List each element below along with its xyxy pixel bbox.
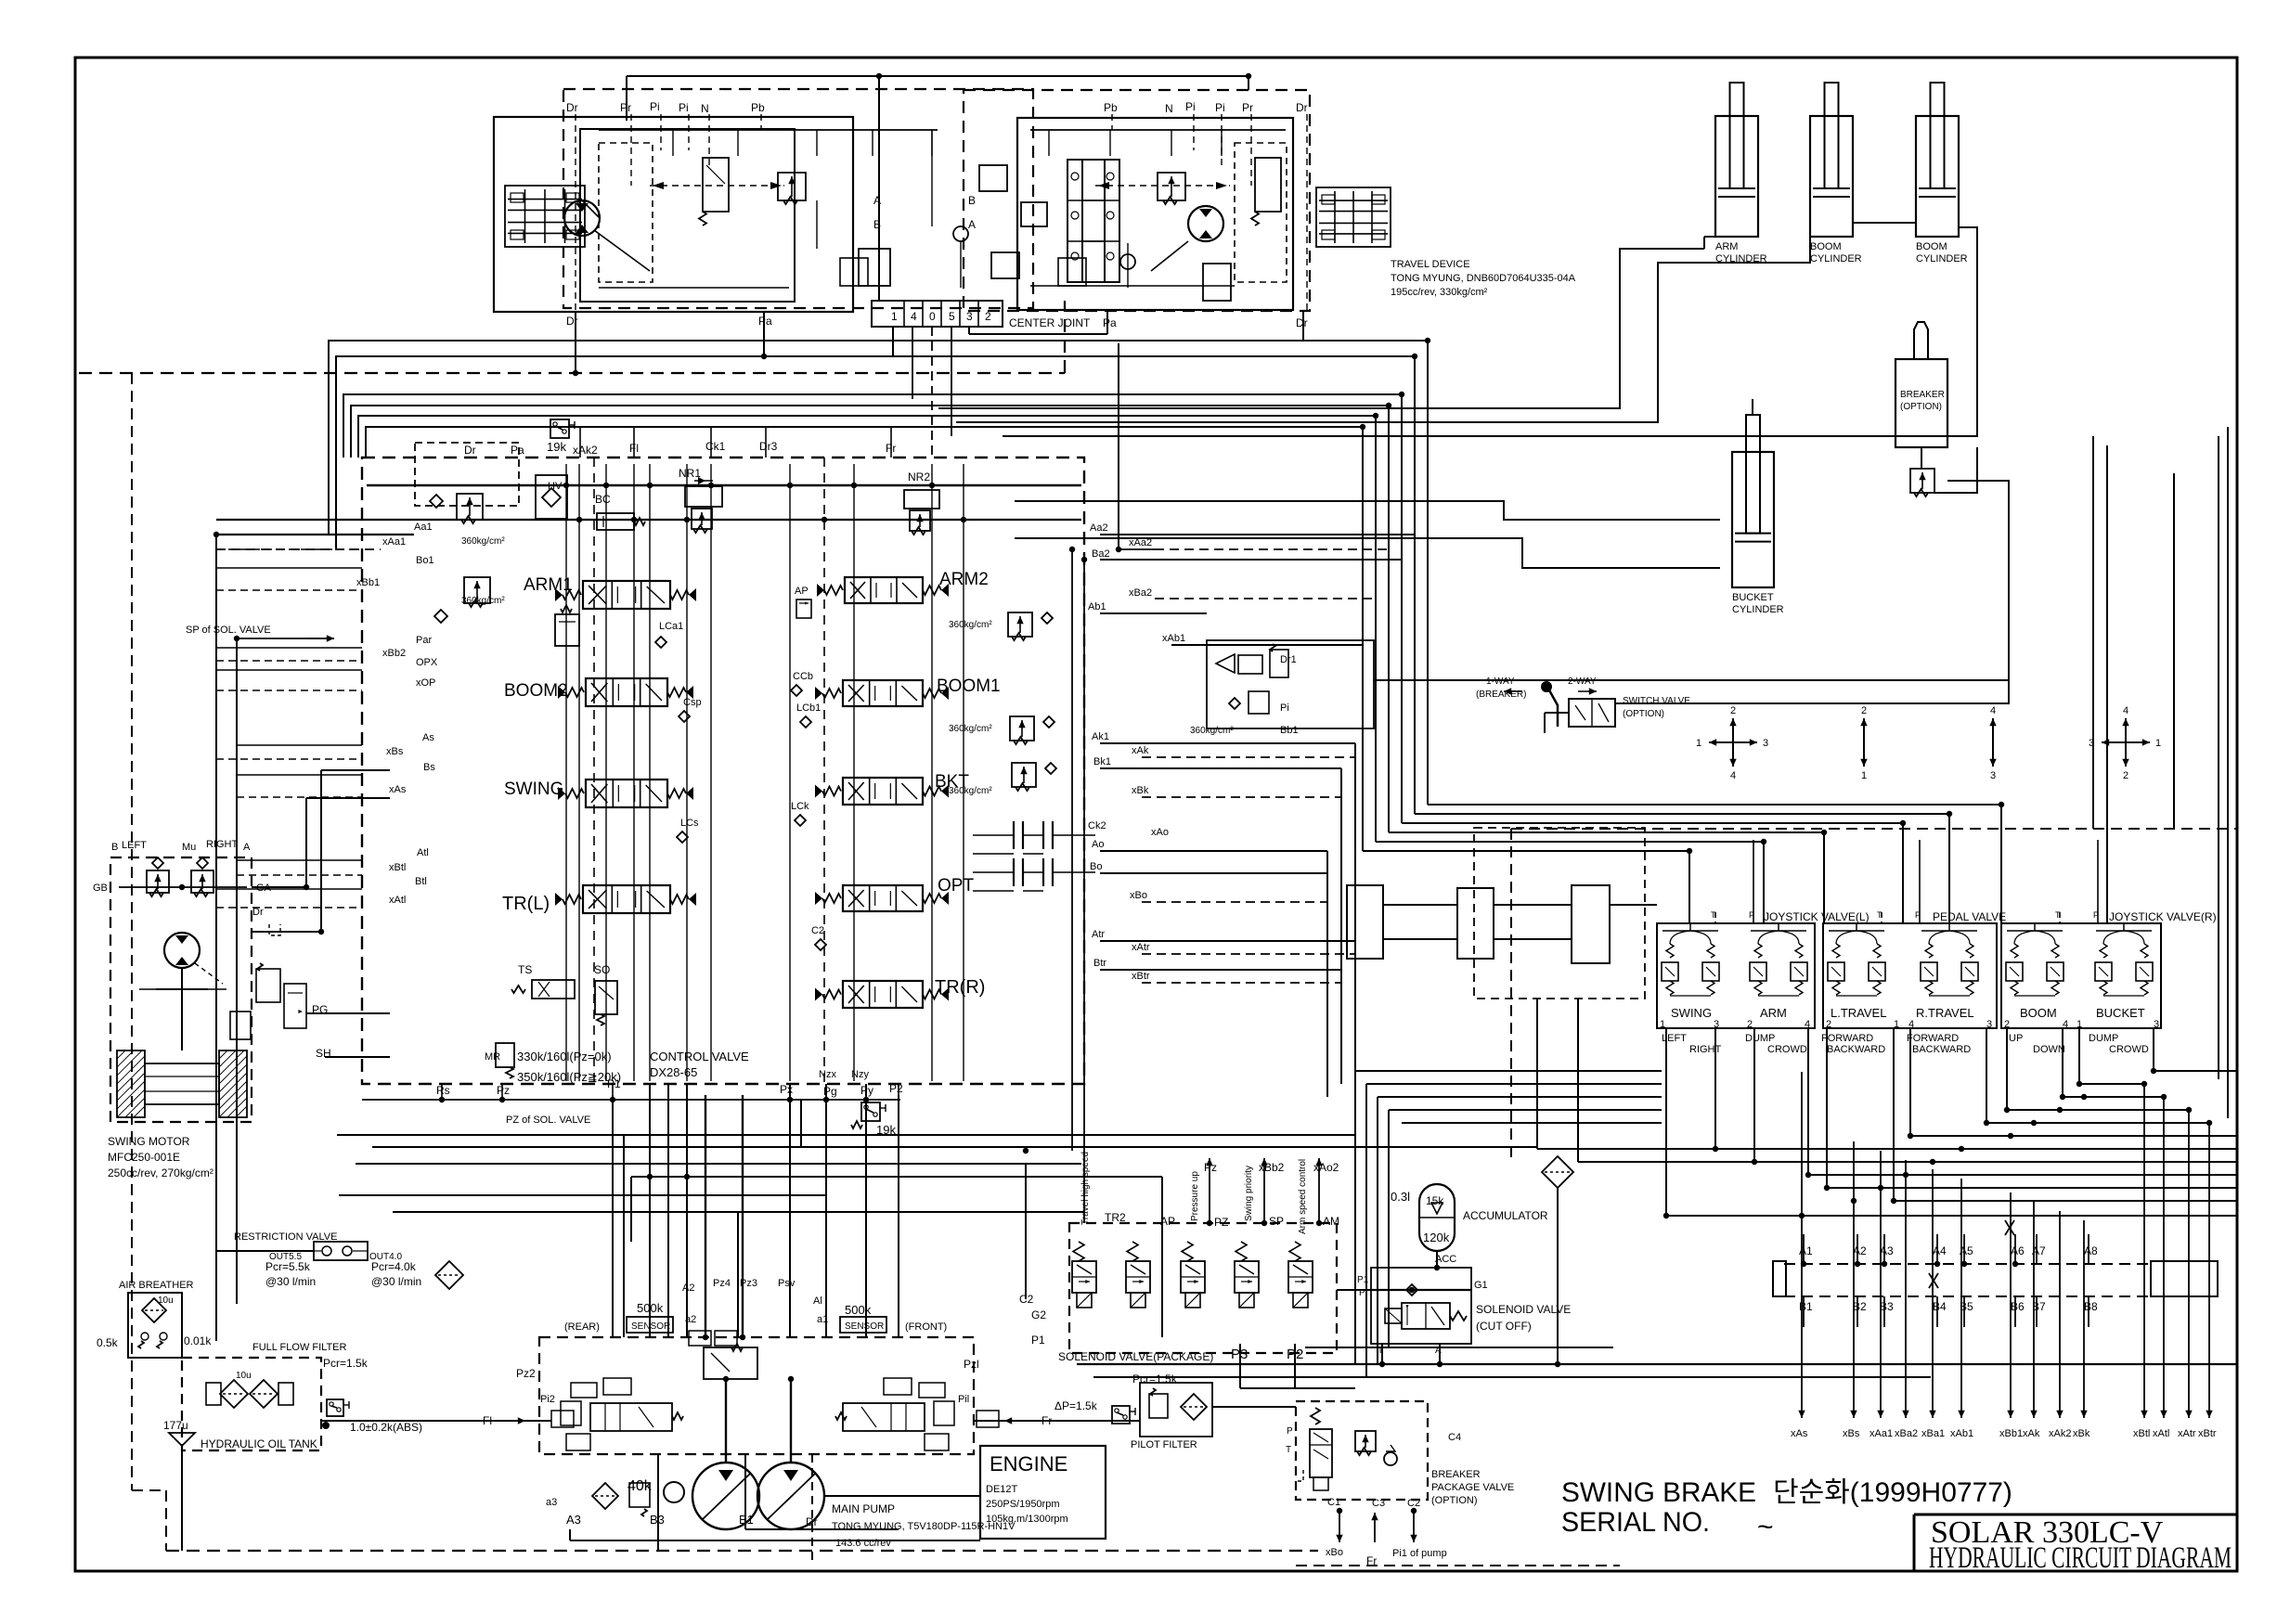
wire collector row 9 [1808, 1174, 2237, 1176]
arm cylinder [1715, 116, 1758, 237]
breaker relief valve [1910, 469, 1934, 493]
svg-text:GB: GB [93, 883, 108, 894]
breaker package main valve [1310, 1429, 1332, 1477]
valve ARM1 [583, 581, 670, 609]
svg-text:SP of SOL. VALVE: SP of SOL. VALVE [186, 625, 271, 636]
main pump dashed box [539, 1337, 974, 1454]
svg-text:UP: UP [2009, 1033, 2023, 1044]
wire mid horizontals right of CV [1100, 534, 1119, 535]
joystick R box [2001, 923, 2161, 1028]
svg-text:JOYSTICK VALVE(R): JOYSTICK VALVE(R) [2109, 910, 2217, 923]
svg-text:Ao: Ao [1092, 839, 1104, 850]
svg-text:LCa1: LCa1 [659, 621, 683, 632]
svg-text:xBk: xBk [2073, 1428, 2090, 1439]
svg-text:Bk1: Bk1 [1093, 756, 1111, 767]
wire P3 P2 drops [1239, 1344, 1241, 1388]
wire swing to CV [252, 886, 306, 888]
wire collector row 2 [2079, 1083, 2144, 1085]
svg-text:TRAVEL DEVICE: TRAVEL DEVICE [1391, 259, 1470, 270]
svg-text:MFC250-001E: MFC250-001E [108, 1151, 180, 1164]
wire xAa1 dashed row [216, 548, 381, 550]
svg-text:Swing priority: Swing priority [1244, 1166, 1254, 1221]
wire CV up-bus 3 [343, 394, 1402, 823]
relief Bk1 360kg [1012, 763, 1036, 787]
svg-text:Pzl: Pzl [964, 1358, 979, 1371]
svg-text:SERIAL NO.: SERIAL NO. [1561, 1507, 1710, 1538]
wire dashed supply top [1511, 828, 2237, 830]
svg-text:Dr: Dr [1296, 316, 1308, 329]
wire joystick drop 11 [2078, 1028, 2080, 1084]
direction cross 1 [1709, 741, 1733, 743]
wire xAa2 drop [1118, 343, 1119, 549]
svg-text:xAo2: xAo2 [1313, 1161, 1339, 1174]
wire joystick drop 4 [1807, 1028, 1809, 1175]
svg-text:xBtl: xBtl [2133, 1428, 2150, 1439]
svg-text:Dr1: Dr1 [1280, 654, 1297, 665]
svg-text:Pr: Pr [1242, 101, 1253, 114]
main relief Aa1 360kg [415, 443, 519, 506]
AB terminal strip [1784, 1263, 2151, 1265]
svg-text:B: B [111, 842, 118, 853]
svg-text:B6: B6 [2011, 1300, 2025, 1313]
svg-text:DE12T: DE12T [986, 1484, 1018, 1495]
svg-text:xAtl: xAtl [389, 895, 406, 906]
return filter diamond [435, 1261, 463, 1289]
svg-text:Pcr=1.5k: Pcr=1.5k [323, 1357, 369, 1370]
wire collector row 3 [2063, 1096, 2164, 1098]
svg-text:0.5k: 0.5k [97, 1336, 119, 1349]
wire left bus vertical 2 [236, 638, 238, 1304]
svg-text:1: 1 [1696, 738, 1701, 749]
svg-text:2: 2 [1730, 705, 1736, 716]
svg-text:Bo1: Bo1 [416, 555, 434, 566]
relief left travel 3 [991, 252, 1019, 278]
svg-text:G1: G1 [1474, 1280, 1488, 1291]
pilot line xAtr [2188, 1110, 2190, 1418]
pilot block right [1572, 885, 1610, 963]
svg-text:CONTROL VALVE: CONTROL VALVE [650, 1050, 749, 1063]
svg-text:P1: P1 [607, 1077, 621, 1090]
svg-text:BOOM: BOOM [2020, 1006, 2057, 1020]
servo piston center [689, 1331, 711, 1346]
svg-text:@30 l/min: @30 l/min [371, 1275, 421, 1288]
wire Fr line [974, 1420, 1004, 1422]
wire tank down to bottom [181, 1446, 183, 1551]
wire center joint drops [931, 327, 933, 458]
wire diamond drop [1557, 1188, 1559, 1364]
wire boom cylinder2 down [1003, 227, 1977, 436]
wire CV top risers [579, 427, 581, 458]
svg-text:DUMP: DUMP [1745, 1033, 1775, 1044]
svg-text:DX28-65: DX28-65 [650, 1065, 697, 1079]
svg-text:2-WAY: 2-WAY [1568, 677, 1597, 687]
wire SP of SOL VALVE line [237, 638, 334, 639]
svg-text:Btr: Btr [1093, 958, 1106, 969]
pilot line xBa1 [1932, 1169, 1934, 1418]
swing relief pair [147, 870, 169, 893]
wire joystick drop 8 [1986, 1028, 1987, 1123]
svg-text:SENSOR: SENSOR [631, 1321, 670, 1332]
svg-text:Pz: Pz [497, 1084, 510, 1097]
valve ARM2 [845, 577, 923, 603]
svg-text:T: T [1286, 1445, 1291, 1455]
junction dots [573, 370, 578, 376]
wire collector row 8 [1578, 1161, 2237, 1163]
wire pump to pilot filter [974, 1420, 1140, 1422]
engine shaft [824, 1495, 980, 1497]
svg-text:A2: A2 [1853, 1244, 1867, 1257]
wire joystick drop 2 [1714, 1028, 1716, 1149]
pilot line xAa1 [1880, 1151, 1882, 1418]
svg-text:Pa: Pa [1103, 316, 1117, 329]
svg-text:B: B [968, 194, 976, 207]
svg-text:BUCKET: BUCKET [2096, 1006, 2145, 1020]
svg-text:R.TRAVEL: R.TRAVEL [1916, 1006, 1974, 1020]
wire CV Aa1 long bus [216, 519, 1081, 521]
joystick R BUCKET unit [2100, 944, 2107, 958]
strip X marks [1929, 1273, 1938, 1288]
svg-text:As: As [422, 732, 434, 743]
svg-text:A: A [243, 842, 251, 853]
svg-text:xAk: xAk [1132, 745, 1149, 756]
wire travel left Pa down [763, 312, 765, 356]
svg-text:1: 1 [1861, 770, 1867, 781]
breaker package valve dashed box [1296, 1401, 1428, 1500]
svg-text:Csp: Csp [683, 697, 702, 708]
svg-text:A6: A6 [2011, 1244, 2025, 1257]
control valve inner dashed divider right [823, 458, 825, 1084]
pump regulator right [919, 1383, 945, 1398]
breaker package arrows [1339, 1511, 1340, 1542]
svg-text:A4: A4 [1933, 1244, 1947, 1257]
cut off solenoid valve symbol [1402, 1303, 1450, 1329]
svg-text:xAk: xAk [2023, 1428, 2040, 1439]
wire bucket cylinder lines [1015, 501, 1720, 520]
svg-text:xOP: xOP [416, 677, 435, 689]
wire collector drop verticals [1354, 1071, 1356, 1364]
svg-text:BC: BC [595, 493, 611, 506]
svg-text:Bo: Bo [1090, 861, 1102, 872]
relief right travel 1 [1158, 173, 1185, 200]
svg-text:Rs: Rs [436, 1084, 450, 1097]
svg-text:C4: C4 [1448, 1432, 1461, 1443]
swing brake hatch [117, 1050, 145, 1117]
svg-text:DUMP: DUMP [2089, 1033, 2118, 1044]
svg-text:C2: C2 [1407, 1498, 1420, 1509]
svg-text:1-WAY: 1-WAY [1486, 677, 1515, 687]
svg-text:~: ~ [1757, 1512, 1774, 1542]
svg-text:B3: B3 [650, 1513, 665, 1527]
pilot line xAs [1801, 1072, 1803, 1418]
svg-text:CENTER JOINT: CENTER JOINT [1009, 316, 1091, 329]
svg-text:2: 2 [985, 310, 991, 323]
svg-text:ENGINE: ENGINE [990, 1452, 1067, 1476]
wire mid collector rows [337, 1134, 1355, 1136]
svg-text:N: N [1165, 102, 1173, 115]
wire joystick drop 6 [1893, 1028, 1895, 1201]
svg-text:SWING: SWING [504, 780, 563, 799]
pilot block left [1457, 888, 1494, 959]
wire B strip drops [1803, 1296, 1805, 1327]
joystick L SWING unit [1666, 944, 1674, 958]
wire pilot block links [1383, 904, 1457, 906]
svg-text:MR: MR [485, 1051, 500, 1063]
wire right edge verticals [2227, 427, 2229, 1118]
svg-text:xBs: xBs [1843, 1428, 1860, 1439]
svg-text:CCb: CCb [793, 671, 813, 682]
svg-text:LCb1: LCb1 [796, 702, 821, 714]
swing motor shaft [181, 968, 183, 1050]
svg-text:Ak1: Ak1 [1092, 731, 1109, 742]
svg-text:Ck1: Ck1 [705, 440, 726, 453]
svg-text:1: 1 [2155, 738, 2161, 749]
svg-text:P2: P2 [889, 1082, 903, 1095]
svg-text:Pi: Pi [650, 100, 660, 113]
svg-text:360kg/cm²: 360kg/cm² [1190, 726, 1234, 736]
wire CV internal verticals [565, 464, 567, 1081]
counterbalance valve right [1255, 158, 1281, 212]
svg-text:RIGHT: RIGHT [206, 839, 239, 850]
svg-text:a3: a3 [546, 1497, 557, 1508]
wire left travel inner details [599, 143, 653, 282]
svg-text:ARM1: ARM1 [524, 575, 573, 595]
relief Bo1 360kg [464, 577, 490, 603]
svg-text:Aa1: Aa1 [414, 522, 433, 533]
svg-text:A8: A8 [2084, 1244, 2098, 1257]
main pump circle right [757, 1463, 824, 1529]
svg-text:BACKWARD: BACKWARD [1827, 1044, 1885, 1055]
svg-text:5: 5 [949, 310, 955, 323]
svg-text:Pi2: Pi2 [540, 1394, 555, 1405]
travel spool valve right [1082, 160, 1119, 282]
hydraulic oil tank dashed box [182, 1358, 321, 1450]
boom cylinder 1 [1810, 116, 1853, 237]
gearbox right [1316, 187, 1391, 247]
svg-text:Mu: Mu [182, 842, 196, 853]
wire Fl line [525, 1420, 551, 1422]
wire collector row 7 [1537, 1148, 2237, 1150]
wire CV left port stubs [216, 534, 362, 535]
joystick R BOOM unit [2011, 944, 2018, 958]
svg-text:NR2: NR2 [908, 470, 930, 483]
svg-text:xAtl: xAtl [2153, 1428, 2169, 1439]
wire Aa1 row [216, 534, 414, 535]
wire bottom long dashed [166, 1550, 1318, 1552]
svg-text:CROWD: CROWD [2109, 1044, 2149, 1055]
valve BOOM1 [843, 680, 923, 706]
svg-text:SWING: SWING [1671, 1006, 1712, 1020]
wire joystick drop 10 [2062, 1028, 2064, 1097]
wire collector row 11 [1894, 1200, 2237, 1202]
svg-text:Ba2: Ba2 [1092, 548, 1110, 560]
svg-text:3: 3 [1990, 770, 1996, 781]
travel device left outer box [494, 117, 853, 312]
svg-text:DOWN: DOWN [2033, 1044, 2065, 1055]
svg-text:1: 1 [1660, 1019, 1665, 1030]
svg-text:195cc/rev, 330kg/cm²: 195cc/rev, 330kg/cm² [1391, 287, 1488, 298]
wire CV up-bus 4 [351, 406, 1389, 832]
svg-text:xBtl: xBtl [389, 862, 406, 873]
control valve inner dashed divider left [593, 458, 595, 1084]
svg-text:Pz4: Pz4 [713, 1278, 731, 1289]
pressure switch 19k top [550, 419, 569, 438]
relief left travel 2 [979, 165, 1007, 191]
travel motor left [564, 200, 600, 236]
wire bottom collector 2 [1093, 1376, 1931, 1378]
svg-text:B2: B2 [1853, 1300, 1867, 1313]
pedal valve box [1823, 923, 1997, 1028]
title block SOLAR 330LC-V [1914, 1514, 2237, 1516]
svg-text:4: 4 [911, 310, 917, 323]
svg-text:Bs: Bs [423, 762, 435, 773]
svg-text:500k: 500k [845, 1303, 872, 1317]
svg-text:xBtr: xBtr [1132, 971, 1150, 982]
svg-text:Aa2: Aa2 [1090, 522, 1108, 534]
wire travel right Dr down [1302, 311, 1304, 341]
svg-text:Pressure up: Pressure up [1190, 1171, 1200, 1221]
wire restriction to CV [630, 1177, 632, 1242]
svg-text:C3: C3 [1372, 1498, 1385, 1509]
svg-text:4: 4 [1908, 1019, 1914, 1030]
engine box [980, 1446, 1106, 1539]
svg-text:xAb1: xAb1 [1162, 633, 1185, 644]
wire package verticals mid [1071, 549, 1073, 1151]
pressure switch 19k bottom [861, 1102, 880, 1121]
svg-text:SWITCH VALVE: SWITCH VALVE [1623, 696, 1690, 706]
svg-text:OPX: OPX [416, 657, 438, 668]
pilot line xBk [2083, 1220, 2085, 1418]
direction cross 4 [2102, 741, 2126, 743]
joystick L box [1657, 923, 1815, 1028]
wire travel right Pa down [1106, 311, 1108, 334]
wire collector row 5 [1986, 1122, 2209, 1124]
cut off solenoid valve box [1371, 1268, 1471, 1344]
svg-text:xBb1: xBb1 [1999, 1428, 2023, 1439]
wire boom cylinders link [956, 237, 1810, 422]
wire right verticals extended [2173, 473, 2175, 829]
valve BKT [843, 778, 923, 805]
svg-text:Atl: Atl [417, 847, 429, 858]
wire accumulator down [1436, 1251, 1438, 1268]
anti-inversion valve swing [230, 1012, 251, 1039]
wire cutoff T A down [1381, 1344, 1383, 1364]
svg-text:250cc/rev, 270kg/cm²: 250cc/rev, 270kg/cm² [108, 1166, 213, 1179]
svg-text:40k: 40k [627, 1478, 653, 1494]
wire right bundle to joystick area [1428, 804, 2001, 806]
svg-text:TS: TS [518, 963, 532, 976]
svg-text:Arm speed control: Arm speed control [1298, 1159, 1308, 1234]
wire CV internal P bus [367, 484, 1081, 487]
svg-text:250PS/1950rpm: 250PS/1950rpm [986, 1499, 1060, 1510]
wire supply box drops [1536, 999, 1538, 1149]
svg-text:AP: AP [795, 586, 809, 597]
wire joystick drop 7 [1909, 1028, 1911, 1136]
swing motor circle [164, 933, 200, 968]
boom holding valve [1207, 640, 1374, 728]
breaker package relief [1355, 1431, 1376, 1451]
switch valve option [1569, 699, 1615, 727]
wire long dashed pilot bus [79, 372, 1065, 374]
svg-text:Al: Al [813, 1295, 822, 1307]
wire joystick drop 12 [2153, 1028, 2154, 1071]
svg-text:NR1: NR1 [679, 467, 701, 480]
tank level switch [327, 1399, 343, 1416]
wire bottom collector 1 [1077, 1363, 2237, 1365]
svg-text:xAs: xAs [389, 784, 407, 795]
wire CV up-bus 5 [358, 416, 1376, 842]
solenoid valve package dashed box [1069, 1223, 1337, 1353]
svg-text:A2: A2 [682, 1282, 694, 1294]
svg-text:C1: C1 [1327, 1497, 1340, 1508]
svg-text:Pa: Pa [511, 444, 524, 457]
relief left travel 1 [778, 173, 806, 200]
svg-text:RIGHT: RIGHT [1689, 1044, 1722, 1055]
wire left bus vertical 1 [215, 535, 217, 1341]
svg-text:(OPTION): (OPTION) [1623, 709, 1664, 719]
svg-text:(CUT OFF): (CUT OFF) [1476, 1320, 1532, 1333]
svg-text:TR2: TR2 [1105, 1211, 1126, 1224]
svg-text:N: N [701, 102, 709, 115]
svg-text:143.6 cc/rev: 143.6 cc/rev [835, 1538, 891, 1549]
wire CV P1 down [612, 1095, 614, 1337]
svg-text:A: A [968, 218, 976, 231]
joystick L ARM unit [1754, 944, 1762, 958]
svg-text:360kg/cm²: 360kg/cm² [949, 724, 992, 734]
pilot gear pump 40k [664, 1482, 684, 1502]
wire breaker connection [1921, 447, 1922, 469]
svg-text:Pi: Pi [1280, 702, 1289, 714]
travel device right dashed enclosure [964, 90, 1310, 311]
main pump circle left [692, 1463, 759, 1529]
wire CV to pump verticals [649, 1084, 651, 1337]
svg-text:15k: 15k [1426, 1194, 1444, 1207]
wire joystick drop 3 [1753, 1028, 1755, 1162]
accumulator [1419, 1184, 1455, 1251]
svg-text:HYDRAULIC CIRCUIT DIAGRAM: HYDRAULIC CIRCUIT DIAGRAM [1929, 1541, 2232, 1575]
package solenoid TR2 [1073, 1242, 1084, 1261]
svg-text:Dr: Dr [1296, 101, 1308, 114]
gearbox left [505, 186, 585, 247]
wire collector row 6 [1910, 1135, 2237, 1137]
wire collector row 10 [1827, 1187, 2237, 1189]
wire CV up-bus 6 [366, 427, 1363, 851]
wire travel left Dr down [575, 312, 576, 373]
pedal LTRAVEL unit [1832, 944, 1840, 958]
svg-text:10u: 10u [158, 1295, 174, 1306]
svg-text:4: 4 [1730, 770, 1736, 781]
boom cylinder 2 [1916, 116, 1959, 237]
svg-text:Dr3: Dr3 [759, 440, 778, 453]
svg-text:2: 2 [2123, 770, 2128, 781]
svg-text:4: 4 [1990, 705, 1996, 716]
svg-text:xBb2: xBb2 [382, 648, 406, 659]
package solenoid PZ [1182, 1242, 1193, 1261]
travel motor right [1188, 206, 1223, 241]
svg-text:L.TRAVEL: L.TRAVEL [1831, 1006, 1886, 1020]
svg-text:Pz: Pz [1204, 1161, 1217, 1174]
wire A strip feeds [1803, 1234, 1805, 1264]
pilot line xAb1 [1960, 1179, 1962, 1418]
center joint [872, 301, 1003, 327]
svg-text:xAo: xAo [1151, 827, 1169, 838]
wire collector row 4 [2007, 1109, 2189, 1111]
svg-text:PILOT FILTER: PILOT FILTER [1131, 1439, 1197, 1450]
pilot block far left [1347, 885, 1383, 959]
svg-text:SWING BRAKE: SWING BRAKE [1561, 1477, 1756, 1508]
svg-text:B4: B4 [1933, 1300, 1947, 1313]
wire pump bottom drops [657, 1454, 659, 1551]
svg-text:FORWARD: FORWARD [1907, 1033, 1959, 1044]
